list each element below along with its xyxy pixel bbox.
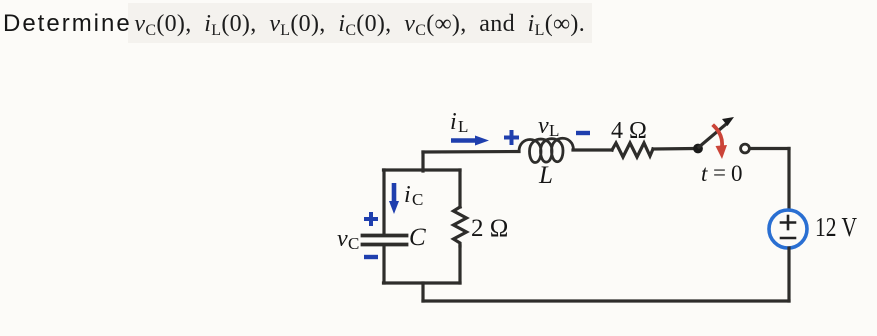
wire: inductor to resistor 4ohm: [573, 148, 612, 151]
label t = 0: [701, 160, 743, 186]
label 2 ohm: [471, 215, 508, 242]
svg-text:=: =: [713, 160, 726, 185]
svg-text:C: C: [412, 190, 423, 209]
wire: right vertical down to voltage source: [787, 149, 790, 211]
switch node dot: [693, 144, 703, 154]
switch open terminal: [741, 144, 750, 153]
wire: box top bar: [384, 168, 461, 171]
problem statement text: [3, 10, 585, 38]
wire: top stub from box to top node: [421, 152, 424, 171]
wire: top node to inductor: [423, 150, 519, 154]
wire: switch terminal to right corner: [750, 147, 789, 150]
wire: box left vertical capacitor branch (above plates): [382, 170, 385, 233]
svg-text:i: i: [404, 182, 411, 208]
polarity - of vL (blue): [576, 131, 590, 135]
label vL: [538, 113, 559, 140]
resistor R 4ohm zigzag: [612, 143, 653, 157]
polarity + of vL (blue): [504, 130, 519, 145]
svg-text:v: v: [538, 113, 549, 139]
label 4 ohm: [611, 118, 647, 144]
svg-text:v: v: [337, 226, 348, 252]
resistor R 2ohm zigzag: [454, 207, 467, 246]
current arrow iC (blue): [389, 183, 399, 214]
svg-text:C: C: [409, 224, 426, 251]
svg-text:i: i: [450, 109, 457, 135]
wire: bottom stub up to box: [421, 283, 424, 301]
svg-text:12 V: 12 V: [815, 212, 857, 242]
svg-text:L: L: [538, 162, 553, 189]
scan background strip behind math text: [128, 3, 592, 43]
polarity - of vC (blue): [364, 255, 378, 259]
svg-text:2 Ω: 2 Ω: [471, 215, 508, 242]
wire: bottom: [423, 299, 789, 302]
label vC: [337, 226, 359, 253]
label 12 V: [815, 212, 857, 242]
polarity + of vC (blue): [364, 212, 378, 226]
svg-text:L: L: [549, 121, 559, 140]
svg-text:C: C: [348, 234, 359, 253]
switch action arrow (red, closing at t=0): [714, 126, 727, 159]
wire: box left vertical capacitor branch (below plates): [382, 247, 385, 283]
label iC: [404, 182, 423, 209]
wire: box right vertical resistor branch (below): [458, 246, 461, 283]
svg-text:L: L: [458, 117, 468, 136]
svg-text:t: t: [701, 161, 708, 186]
svg-text:0: 0: [731, 161, 743, 186]
label C: [409, 224, 426, 251]
label L: [538, 162, 553, 189]
wire: resistor to switch dot: [653, 147, 694, 151]
wire: box bottom bar: [384, 281, 461, 284]
inductor L: [519, 138, 574, 162]
voltage source 12V circle: [769, 210, 807, 248]
svg-text:4 Ω: 4 Ω: [611, 118, 647, 144]
switch blade with arrow tip: [699, 117, 734, 147]
wire: voltage source to bottom corner: [787, 248, 790, 301]
label iL: [450, 109, 468, 136]
capacitor C plates: [363, 236, 407, 245]
current arrow iL (blue): [451, 136, 489, 146]
wire: box right vertical resistor branch (above): [458, 170, 461, 207]
